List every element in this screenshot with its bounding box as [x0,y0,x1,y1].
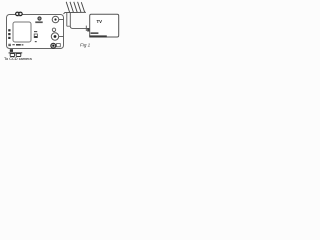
svg-text:Fig 1: Fig 1 [80,42,91,47]
svg-text:To CCD camera: To CCD camera [4,56,33,61]
svg-text:TV: TV [97,19,103,24]
